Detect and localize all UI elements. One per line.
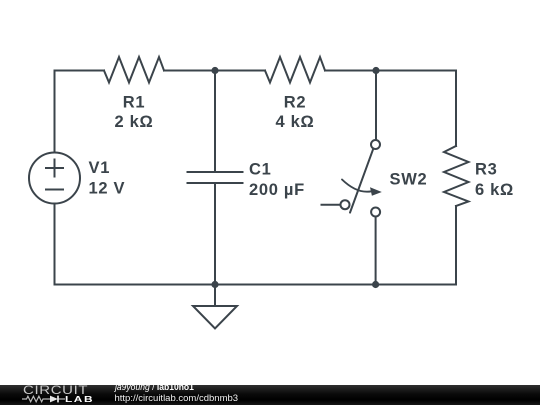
svg-text:R3: R3 [475, 161, 498, 179]
wire right-bottom: R3 bottom to bottom-right corner [455, 206, 457, 285]
junction node A [211, 67, 218, 74]
wire: R2 right to top-right corner (through node B) [325, 71, 456, 147]
CircuitLab logo schematic squiggle (resistor + diode) [22, 394, 66, 404]
capacitor C1 [188, 172, 243, 183]
footer bar [0, 385, 540, 405]
svg-text:4 kΩ: 4 kΩ [276, 113, 315, 131]
wire: node B down to SW2 common terminal [375, 71, 377, 140]
switch SW2 arrowhead [370, 187, 382, 195]
svg-text:2 kΩ: 2 kΩ [115, 113, 154, 131]
junction: ground node on bottom rail [211, 281, 218, 288]
resistor R1 [104, 57, 164, 83]
wire left-bottom: V1 bottom to bottom rail [54, 205, 56, 285]
svg-text:C1: C1 [249, 161, 272, 179]
wire: node A down to C1 top plate [214, 71, 216, 173]
resistor R3 [444, 146, 469, 206]
credit line: author / project [115, 383, 194, 393]
ground [193, 285, 237, 329]
svg-text:200 µF: 200 µF [249, 181, 305, 199]
svg-text:6 kΩ: 6 kΩ [475, 181, 514, 199]
svg-text:SW2: SW2 [390, 171, 428, 189]
resistor R2 [265, 57, 325, 83]
wire: SW2 bottom throw to bottom rail [375, 217, 377, 285]
svg-text:R1: R1 [123, 94, 146, 112]
wire top-left: V1 top to R1 left lead [55, 71, 105, 152]
wire bottom rail [55, 284, 457, 286]
svg-text:12 V: 12 V [89, 180, 126, 198]
voltage source V1 [29, 153, 80, 204]
wire: C1 bottom plate to bottom rail [214, 183, 216, 285]
svg-text:R2: R2 [284, 94, 307, 112]
switch SW2 [341, 140, 381, 217]
credit line: url [115, 394, 239, 404]
junction: SW2 branch on bottom rail [372, 281, 379, 288]
wire: SW2 left throw stub [322, 204, 341, 206]
svg-text:V1: V1 [89, 159, 111, 177]
CircuitLab logo wordmark CIRCUIT [23, 386, 88, 398]
junction node B [372, 67, 379, 74]
wire: R1 right to R2 left lead (through node A) [164, 70, 265, 72]
CircuitLab logo wordmark LAB [65, 395, 94, 404]
